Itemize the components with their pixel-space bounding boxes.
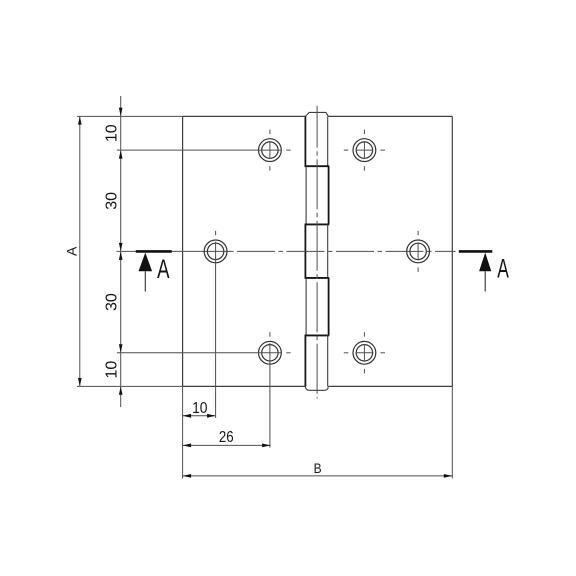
screw hole top-left outer circle [259, 139, 282, 162]
extension line plate right edge down [451, 386, 453, 478]
extension line plate left edge down [182, 386, 184, 478]
screw hole bottom-right outer circle [353, 341, 376, 364]
svg-text:10: 10 [192, 400, 207, 417]
hinge knuckle segment 3 [305, 224, 327, 278]
section arrow left tail [144, 271, 146, 291]
extension line hole row 1 [117, 149, 281, 151]
hinge knuckle segment 2 [306, 166, 329, 224]
screw hole bottom-right inner circle [356, 345, 372, 361]
arrowhead A top [78, 116, 82, 124]
svg-text:A: A [64, 246, 80, 256]
knuckle bottom rounded cap [305, 386, 328, 390]
dimension line B [183, 475, 453, 477]
svg-text:26: 26 [219, 429, 234, 446]
hinge knuckle segment 1 [305, 116, 327, 166]
hinge knuckle segment 5 [305, 335, 327, 386]
arrowhead B right [444, 474, 453, 478]
screw hole middle-right crosshair [417, 231, 419, 272]
screw hole middle-left crosshair [215, 231, 217, 236]
screw hole bottom-left inner circle [262, 345, 278, 361]
svg-text:A: A [497, 254, 509, 284]
extension line plate bottom to left [77, 385, 183, 387]
extension line bottom-left hole down [269, 343, 271, 448]
screw hole middle-right outer circle [407, 240, 430, 263]
dimension line 26 [183, 444, 271, 446]
svg-text:30: 30 [103, 293, 120, 311]
screw hole top-left inner circle [262, 142, 278, 158]
arrowhead 10 left [183, 414, 192, 418]
chain arrowhead at row1 [119, 150, 123, 159]
chain arrowhead above centerline [119, 243, 123, 252]
section cut marker left thick line [136, 250, 172, 253]
screw hole top-right outer circle [353, 139, 376, 162]
svg-text:10: 10 [103, 124, 120, 142]
arrowhead A bottom [78, 378, 82, 386]
screw hole top-left crosshair [270, 130, 291, 171]
arrowhead B left [183, 474, 192, 478]
hinge pin vertical centerline [316, 106, 318, 399]
arrowhead 10 right [207, 414, 216, 418]
screw hole middle-right inner circle [410, 243, 426, 259]
knuckle top chamfer cap [305, 112, 328, 116]
knuckle joint line 4 [305, 334, 330, 336]
screw hole bottom-left outer circle [259, 341, 282, 364]
svg-text:B: B [314, 460, 322, 476]
knuckle joint line 2 [305, 223, 330, 225]
screw hole bottom-left crosshair [270, 332, 291, 353]
hinge leaf plate outline [183, 116, 453, 386]
arrowhead 26 left [183, 444, 192, 448]
knuckle joint line 3 [305, 277, 330, 279]
knuckle joint line 1 [305, 165, 330, 167]
dimension chain line left [120, 96, 122, 407]
extension line hole row 3 [117, 352, 281, 354]
section cut marker right thick line [459, 250, 493, 253]
chain arrowhead below centerline [119, 251, 123, 260]
section arrow right tail [484, 271, 486, 291]
screw hole middle-left inner circle [207, 243, 223, 259]
extension line plate top to left [77, 115, 183, 117]
chain arrowhead at row3 [119, 344, 123, 353]
screw hole top-right crosshair [344, 130, 385, 171]
section arrow right triangle [479, 253, 491, 272]
screw hole middle-left outer circle [204, 240, 227, 263]
arrowhead 26 right [262, 444, 271, 448]
horizontal centerline solid lead-in [117, 250, 230, 252]
hinge knuckle segment 4 [306, 278, 329, 336]
chain arrowhead at plate top [119, 108, 123, 117]
screw hole top-right inner circle [356, 142, 372, 158]
screw hole bottom-right crosshair [344, 332, 385, 373]
chain arrowhead at plate bottom [119, 386, 123, 394]
dimension line A overall height [79, 116, 81, 386]
dimension line 10 bottom [183, 415, 216, 417]
section arrow left triangle [139, 253, 153, 272]
svg-text:10: 10 [103, 361, 120, 379]
horizontal centerline dash-dot [229, 250, 456, 252]
svg-text:A: A [157, 254, 169, 284]
svg-text:30: 30 [103, 192, 120, 210]
extension line middle-left hole down [215, 242, 217, 418]
